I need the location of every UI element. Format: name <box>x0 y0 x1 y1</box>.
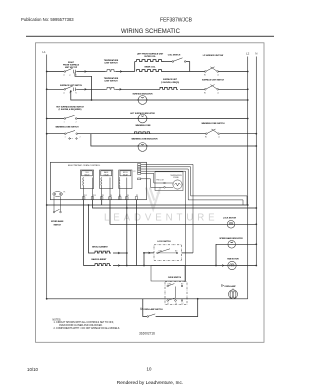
svg-text:FAN MOTOR: FAN MOTOR <box>227 257 239 260</box>
svg-text:(1 SHOWN, 4 REQD): (1 SHOWN, 4 REQD) <box>161 81 180 84</box>
svg-text:OVEN DOOR CLOSED AND UNLOCKED.: OVEN DOOR CLOSED AND UNLOCKED. <box>59 324 103 327</box>
svg-text:OVEN LAMP SWITCH: OVEN LAMP SWITCH <box>143 308 163 311</box>
svg-text:HOT SURFACE INDICATOR: HOT SURFACE INDICATOR <box>130 112 155 115</box>
svg-text:1: 1 <box>64 122 65 124</box>
svg-text:P13: P13 <box>93 195 96 197</box>
svg-text:OUTER COIL: OUTER COIL <box>144 56 157 58</box>
svg-text:2: 2 <box>76 122 77 124</box>
svg-text:P6: P6 <box>127 195 129 197</box>
svg-text:P5: P5 <box>119 195 121 197</box>
svg-text:SURFACE UNIT SWITCH: SURFACE UNIT SWITCH <box>60 84 83 87</box>
svg-text:10/10: 10/10 <box>27 367 39 372</box>
svg-text:WARMING ZONE INDICATOR: WARMING ZONE INDICATOR <box>132 137 159 140</box>
svg-text:1: 1 <box>65 136 66 138</box>
svg-text:ELECTRONIC OVEN CONTROL: ELECTRONIC OVEN CONTROL <box>68 165 101 167</box>
svg-text:LOCK SWITCH: LOCK SWITCH <box>157 241 171 243</box>
svg-text:T1: T1 <box>75 75 77 77</box>
svg-text:TEMPERATURE: TEMPERATURE <box>104 59 119 62</box>
svg-text:P3: P3 <box>102 195 104 197</box>
svg-text:L2: L2 <box>217 75 219 77</box>
svg-text:L2: L2 <box>246 52 250 56</box>
svg-text:UNIT SW TOP: UNIT SW TOP <box>65 67 78 69</box>
svg-text:P: P <box>69 75 70 77</box>
svg-text:2. COMPONENTS WITH > DO NOT: 2. COMPONENTS WITH > DO NOT APPEAR ON AL… <box>54 327 121 330</box>
svg-text:WARMING ZONE: WARMING ZONE <box>135 124 151 127</box>
svg-text:N: N <box>175 303 176 305</box>
svg-text:Publication No: 5995577383: Publication No: 5995577383 <box>21 17 74 22</box>
svg-text:Rendered by LeadVenture, Inc.: Rendered by LeadVenture, Inc. <box>117 380 183 386</box>
svg-text:P1: P1 <box>64 192 66 194</box>
svg-text:LIMIT SWITCH: LIMIT SWITCH <box>105 63 119 65</box>
svg-text:PROBE: PROBE <box>173 177 178 179</box>
svg-text:P: P <box>69 93 70 95</box>
svg-text:L2: L2 <box>217 92 219 94</box>
svg-text:WARMING ZONE SWITCH: WARMING ZONE SWITCH <box>55 126 79 129</box>
svg-text:316002716: 316002716 <box>139 332 155 336</box>
svg-text:L1: L1 <box>42 50 46 54</box>
svg-text:LF SURFACE UNIT SW: LF SURFACE UNIT SW <box>203 54 224 57</box>
svg-text:LEADVENTURE: LEADVENTURE <box>104 213 219 224</box>
svg-text:INNER COIL: INNER COIL <box>145 66 157 68</box>
svg-text:SWITCH: SWITCH <box>53 225 61 227</box>
svg-text:SURFACE INDICATOR: SURFACE INDICATOR <box>133 92 154 95</box>
svg-text:P4: P4 <box>110 195 112 197</box>
svg-text:WARMING ZONE SWITCH: WARMING ZONE SWITCH <box>201 122 225 125</box>
svg-text:LOCK MOTOR: LOCK MOTOR <box>223 218 237 220</box>
svg-text:2: 2 <box>80 136 81 138</box>
svg-text:LIMIT SWITCH: LIMIT SWITCH <box>105 80 119 82</box>
svg-text:PRB COM: PRB COM <box>156 180 164 182</box>
svg-text:BROIL: BROIL <box>123 172 128 174</box>
svg-text:DLB: DLB <box>85 172 88 174</box>
svg-text:P9: P9 <box>136 195 138 197</box>
svg-text:BROIL ELEMENT: BROIL ELEMENT <box>92 247 108 249</box>
svg-text:L1: L1 <box>63 92 65 94</box>
svg-text:WIRING SCHEMATIC: WIRING SCHEMATIC <box>121 29 181 35</box>
svg-text:L1: L1 <box>218 137 220 139</box>
svg-text:(1 SHOWN, 4 REQUIRED): (1 SHOWN, 4 REQUIRED) <box>59 108 82 111</box>
svg-text:FEF387WJCB: FEF387WJCB <box>160 18 193 24</box>
svg-text:10: 10 <box>147 367 152 372</box>
svg-text:H1: H1 <box>204 75 206 77</box>
svg-text:HOT SURFACE BOND SWITCH: HOT SURFACE BOND SWITCH <box>56 106 84 109</box>
svg-text:COIL SWITCH: COIL SWITCH <box>168 55 181 57</box>
svg-text:L1: L1 <box>63 75 65 77</box>
svg-text:SURFACE UNIT: SURFACE UNIT <box>163 78 178 81</box>
svg-text:T1: T1 <box>75 92 77 94</box>
svg-text:FRONT SURFACE: FRONT SURFACE <box>63 64 80 67</box>
svg-text:OVEN SWITCH: OVEN SWITCH <box>168 277 182 279</box>
svg-text:P12: P12 <box>84 195 87 197</box>
svg-text:P2: P2 <box>134 171 136 173</box>
svg-text:SPEED BAKE: SPEED BAKE <box>51 220 64 223</box>
svg-text:L1: L1 <box>167 303 169 305</box>
svg-text:L2: L2 <box>182 303 184 305</box>
svg-text:1. CIRCUIT SHOWN WITH ALL CON: 1. CIRCUIT SHOWN WITH ALL CONTROLS SET T… <box>54 321 114 324</box>
svg-text:BAKE ELEMENT: BAKE ELEMENT <box>92 258 108 261</box>
svg-text:H2: H2 <box>204 92 206 94</box>
svg-text:TEMPERATURE: TEMPERATURE <box>104 77 119 80</box>
svg-text:SPEED BAKE INDICATOR: SPEED BAKE INDICATOR <box>219 237 243 240</box>
svg-text:SURFACE UNIT SWITCH: SURFACE UNIT SWITCH <box>202 79 225 82</box>
svg-text:N: N <box>255 52 257 56</box>
svg-text:NOTES:: NOTES: <box>53 319 62 321</box>
svg-text:OVEN LAMP: OVEN LAMP <box>224 285 236 288</box>
svg-text:LEFT FRONT SURFACE UNIT: LEFT FRONT SURFACE UNIT <box>137 53 164 56</box>
svg-text:H1: H1 <box>205 137 207 139</box>
